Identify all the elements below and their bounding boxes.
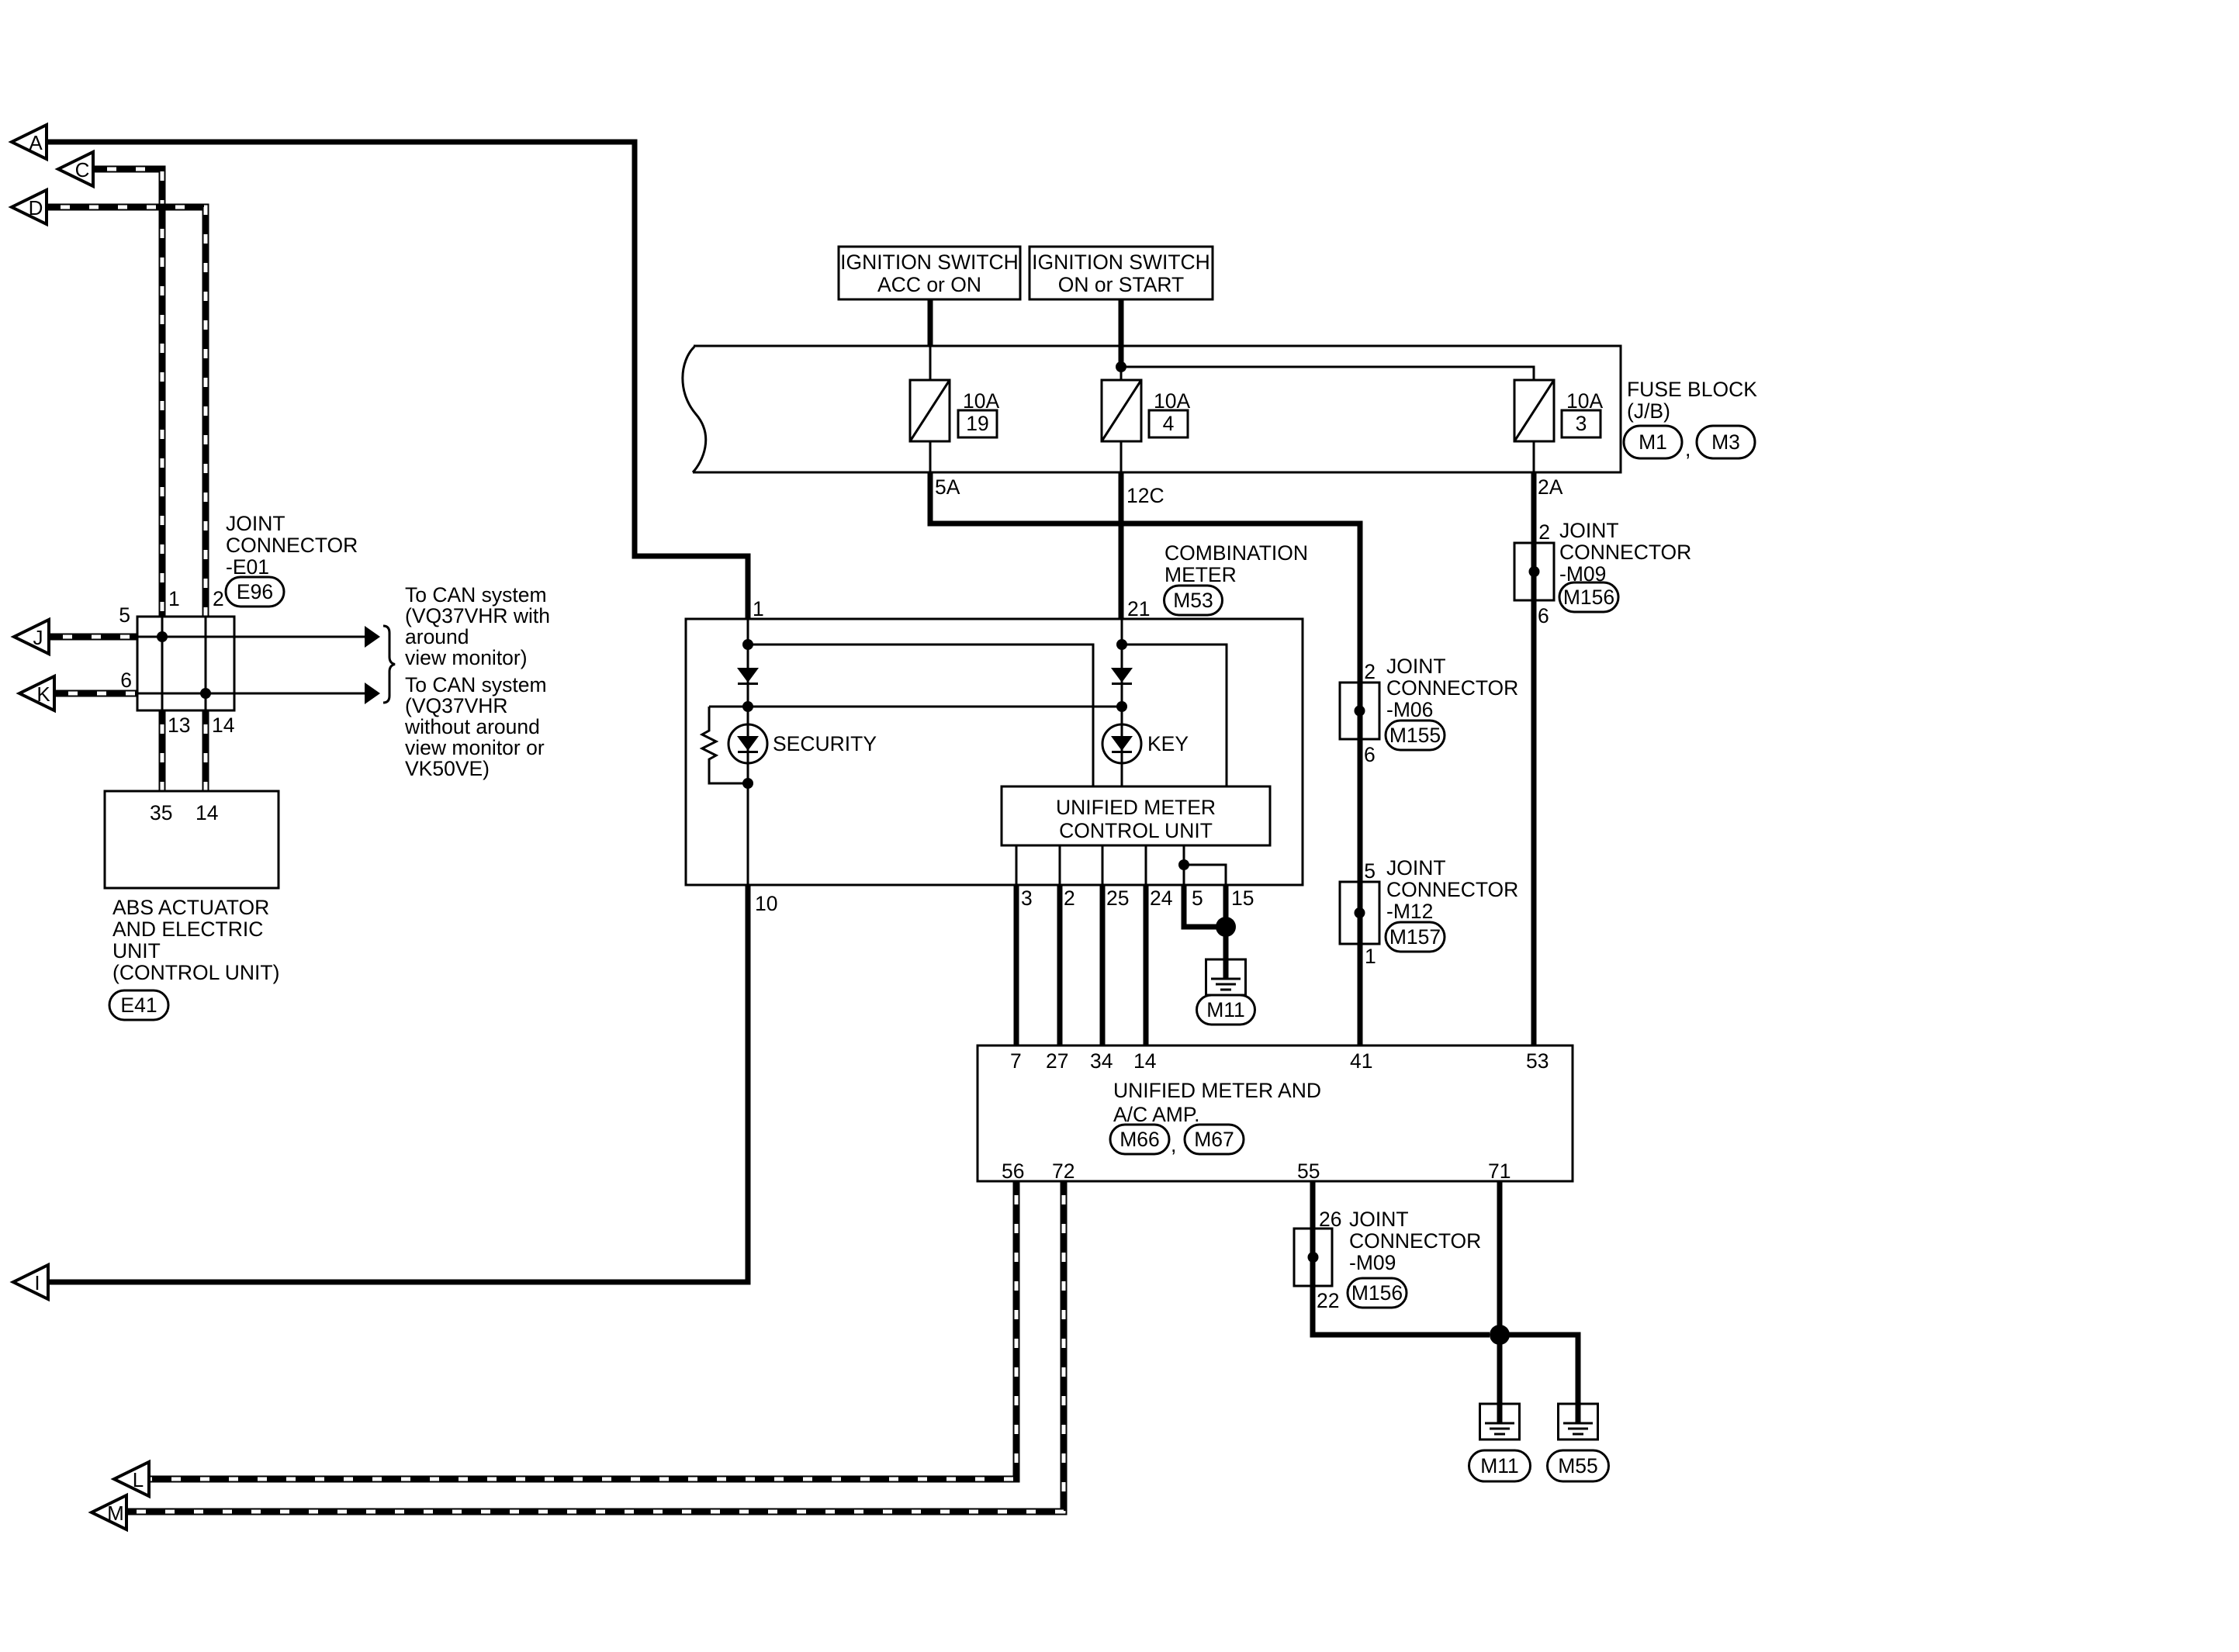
- wire: CAN line E96 pin13 to ABS pin 35: [159, 710, 166, 791]
- svg-text:4: 4: [1163, 412, 1175, 435]
- joint connector E96 box: [137, 617, 234, 710]
- svg-text:AND ELECTRIC: AND ELECTRIC: [112, 918, 263, 941]
- svg-text:53: 53: [1526, 1049, 1549, 1073]
- svg-text:14: 14: [196, 801, 218, 824]
- svg-text:To CAN system: To CAN system: [405, 583, 547, 607]
- svg-text:12C: 12C: [1126, 484, 1164, 507]
- svg-text:CONNECTOR: CONNECTOR: [1386, 878, 1518, 901]
- resistor parallel to security lamp: [702, 707, 748, 783]
- fuse 10A #4: [1102, 380, 1141, 441]
- svg-text:ABS ACTUATOR: ABS ACTUATOR: [112, 896, 269, 919]
- svg-text:(J/B): (J/B): [1627, 399, 1670, 423]
- node: ground junction below meter: [1216, 917, 1236, 937]
- svg-text:,: ,: [1171, 1133, 1176, 1156]
- svg-text:5: 5: [1192, 886, 1203, 910]
- connector oval M11 (meter ground): [1197, 995, 1255, 1025]
- unified meter and A/C amp box: [978, 1045, 1573, 1181]
- svg-text:UNIFIED METER: UNIFIED METER: [1056, 796, 1216, 819]
- svg-text:24: 24: [1150, 886, 1172, 910]
- connector arrow J: [14, 620, 49, 654]
- connector arrow A: [12, 125, 47, 159]
- ground symbol M11 (lower): [1480, 1404, 1520, 1439]
- svg-text:J: J: [33, 626, 43, 649]
- connector oval M156: [1559, 582, 1618, 612]
- wire: internal link to key lamp line: [709, 706, 1122, 708]
- svg-text:10: 10: [755, 892, 777, 915]
- svg-text:6: 6: [1364, 743, 1376, 766]
- svg-text:view monitor): view monitor): [405, 646, 528, 669]
- svg-text:D: D: [29, 196, 43, 219]
- wire: fuse 4 to fuse block bottom: [1120, 441, 1123, 472]
- fuse block (J/B) outline with torn left edge: [693, 346, 1621, 472]
- diode on security branch: [737, 668, 759, 683]
- connector oval E41: [109, 990, 168, 1020]
- svg-text:UNIT: UNIT: [112, 939, 161, 963]
- svg-text:KEY: KEY: [1147, 732, 1189, 755]
- svg-text:IGNITION SWITCH: IGNITION SWITCH: [840, 251, 1019, 274]
- svg-text:19: 19: [966, 412, 988, 435]
- fuse 10A #19: [910, 380, 950, 441]
- wire: meter internal pin1 branch vertical: [747, 619, 749, 885]
- ignition switch ON or START box: [1030, 247, 1213, 299]
- svg-text:SECURITY: SECURITY: [773, 732, 877, 755]
- wire: branch from pin5 junction to pin 15 lead: [1184, 865, 1226, 885]
- node: E96 junction pin1/pin5: [157, 631, 168, 642]
- svg-text:56: 56: [1002, 1160, 1024, 1183]
- wire: CAN line arrow J to E96 pin 5: [49, 634, 137, 641]
- connector oval E96: [226, 577, 284, 607]
- svg-text:M67: M67: [1194, 1128, 1234, 1151]
- wire: meter internal pin21 branch vertical: [1121, 619, 1123, 786]
- connector oval M156 (lower): [1348, 1278, 1407, 1308]
- svg-text:M11: M11: [1480, 1454, 1519, 1477]
- wire: E96 internal pin2-pin14 vertical: [205, 617, 207, 710]
- svg-text:JOINT: JOINT: [226, 512, 285, 535]
- arrowhead to CAN system upper: [365, 626, 380, 648]
- ground symbol M11 (meter): [1206, 959, 1246, 995]
- wire: control unit pin 24 lead: [1145, 845, 1147, 885]
- svg-text:M156: M156: [1351, 1281, 1403, 1305]
- joint connector -M09 (M156) box on 2A wire: [1514, 543, 1554, 600]
- ABS actuator and electric unit box: [105, 791, 279, 888]
- unified meter control unit box: [1002, 786, 1270, 845]
- svg-text:JOINT: JOINT: [1349, 1208, 1409, 1231]
- svg-text:27: 27: [1046, 1049, 1068, 1073]
- connector oval M66: [1110, 1125, 1169, 1154]
- node: key branch top junction: [1116, 639, 1127, 650]
- svg-text:A: A: [29, 131, 43, 154]
- wire: internal link key junction to control unit: [1122, 645, 1227, 786]
- label: fuse number 19 box: [958, 410, 997, 437]
- svg-text:UNIFIED METER AND: UNIFIED METER AND: [1113, 1079, 1321, 1102]
- svg-text:without around: without around: [404, 715, 540, 738]
- connector arrow K: [19, 676, 54, 710]
- svg-text:-M09: -M09: [1349, 1251, 1396, 1274]
- svg-text:M66: M66: [1119, 1128, 1160, 1151]
- svg-text:CONNECTOR: CONNECTOR: [1559, 541, 1691, 564]
- svg-text:-M06: -M06: [1386, 698, 1433, 721]
- joint connector -M12 (M157) box on 41 wire: [1340, 882, 1379, 944]
- wire: meter pin 3 to amp pin 7: [1014, 885, 1019, 1045]
- node: key branch mid junction: [1116, 701, 1127, 712]
- svg-text:JOINT: JOINT: [1386, 856, 1446, 880]
- wire: harness A horizontal/vertical feed to combination meter pin 1: [47, 142, 748, 619]
- connector oval M53: [1164, 586, 1223, 615]
- connector arrow D: [12, 190, 47, 224]
- svg-text:ON or START: ON or START: [1058, 273, 1184, 296]
- svg-text:3: 3: [1576, 412, 1587, 435]
- wire: meter pin 24 to amp pin 14: [1144, 885, 1149, 1045]
- svg-text:2: 2: [213, 587, 224, 610]
- svg-text:5: 5: [119, 603, 130, 627]
- svg-text:2A: 2A: [1538, 475, 1563, 499]
- svg-text:(VQ37VHR with: (VQ37VHR with: [405, 604, 550, 627]
- wire: thin line through E96 to CAN system (upper): [137, 636, 365, 638]
- connector oval M3: [1697, 426, 1755, 458]
- diode on key branch: [1111, 668, 1133, 683]
- svg-text:,: ,: [1685, 437, 1690, 461]
- svg-text:7: 7: [1010, 1049, 1022, 1073]
- svg-text:To CAN system: To CAN system: [405, 673, 547, 696]
- wire: thin feed to fuse 19: [929, 346, 932, 380]
- wire: 12C output down to combination meter pin 21: [1119, 472, 1124, 619]
- svg-text:ACC or ON: ACC or ON: [877, 273, 981, 296]
- svg-text:I: I: [34, 1271, 40, 1294]
- svg-text:26: 26: [1319, 1208, 1341, 1231]
- svg-text:CONNECTOR: CONNECTOR: [1349, 1229, 1481, 1253]
- svg-text:around: around: [405, 625, 469, 648]
- wire: 5A output down, across and down to unified meter A/C amp pin 41: [930, 472, 1360, 1045]
- svg-text:13: 13: [168, 714, 190, 737]
- svg-text:M55: M55: [1558, 1454, 1598, 1477]
- wire: branch from ON feed junction to fuse 3: [1121, 367, 1534, 380]
- svg-text:M3: M3: [1711, 430, 1740, 454]
- svg-text:METER: METER: [1164, 563, 1237, 586]
- svg-text:M1: M1: [1639, 430, 1667, 454]
- wire: thin feed to fuse 4: [1120, 367, 1123, 380]
- svg-text:6: 6: [120, 669, 132, 692]
- svg-text:22: 22: [1317, 1289, 1339, 1312]
- svg-text:34: 34: [1090, 1049, 1113, 1073]
- wire: E96 internal pin1-pin13 vertical: [161, 617, 164, 710]
- svg-text:71: 71: [1488, 1160, 1511, 1183]
- svg-text:55: 55: [1297, 1160, 1320, 1183]
- svg-text:-M12: -M12: [1386, 900, 1433, 923]
- wire: 2A output down through joint connectors to amp pin 53: [1531, 472, 1537, 1045]
- joint connector -M06 (M155) box on 41 wire: [1340, 683, 1379, 739]
- wire: CAN line from arrow C down to joint connector E96 pin 1: [93, 169, 162, 617]
- svg-text:CONNECTOR: CONNECTOR: [1386, 676, 1518, 700]
- wire: CAN line from arrow D down to joint connector E96 pin 2: [47, 207, 206, 617]
- svg-text:2: 2: [1064, 886, 1075, 910]
- wire: amp pin 55 down through joint connector M09 to ground junction: [1313, 1181, 1490, 1335]
- wire: meter pin 15 to ground junction: [1223, 885, 1229, 927]
- wire: meter pin 25 to amp pin 34: [1100, 885, 1106, 1045]
- connector arrow C: [58, 152, 93, 186]
- svg-text:C: C: [75, 158, 90, 181]
- svg-text:L: L: [133, 1468, 144, 1491]
- svg-text:JOINT: JOINT: [1386, 655, 1446, 678]
- svg-text:2: 2: [1364, 660, 1376, 683]
- node: pin5 junction: [1178, 859, 1189, 870]
- wire: junction to ground M11 (lower): [1497, 1335, 1503, 1424]
- svg-text:1: 1: [168, 587, 180, 610]
- svg-text:CONNECTOR: CONNECTOR: [226, 534, 358, 557]
- wire: CAN line E96 pin14 to ABS pin 14: [202, 710, 209, 791]
- svg-text:15: 15: [1231, 886, 1254, 910]
- svg-text:14: 14: [212, 714, 234, 737]
- wire: ground junction to ground M11: [1223, 927, 1229, 980]
- svg-text:(CONTROL UNIT): (CONTROL UNIT): [112, 961, 279, 984]
- svg-text:41: 41: [1350, 1049, 1372, 1073]
- svg-text:72: 72: [1052, 1160, 1075, 1183]
- svg-text:A/C AMP.: A/C AMP.: [1113, 1103, 1199, 1126]
- svg-text:VK50VE): VK50VE): [405, 757, 490, 780]
- LED: SECURITY indicator: [728, 724, 767, 763]
- label: fuse number 3 box: [1562, 410, 1601, 437]
- wire: CAN line amp pin 56 down and left to arrow L: [149, 1181, 1016, 1479]
- connector oval M11 (lower ground): [1469, 1450, 1531, 1481]
- svg-text:M11: M11: [1206, 998, 1245, 1021]
- node: E96 junction pin2/pin6: [200, 688, 211, 699]
- node: security branch mid junction: [742, 701, 753, 712]
- combination meter box: [686, 619, 1303, 885]
- connector arrow I: [13, 1265, 48, 1299]
- wire: CAN line amp pin 72 down and left to arrow M: [126, 1181, 1064, 1512]
- svg-text:M157: M157: [1389, 925, 1441, 949]
- svg-text:5: 5: [1364, 859, 1376, 883]
- connector oval M157: [1386, 922, 1445, 952]
- connector oval M155: [1386, 721, 1445, 750]
- svg-text:25: 25: [1106, 886, 1129, 910]
- ground symbol M55: [1559, 1404, 1598, 1439]
- svg-text:35: 35: [150, 801, 172, 824]
- svg-text:JOINT: JOINT: [1559, 519, 1619, 542]
- node: ground junction below amp: [1490, 1325, 1510, 1345]
- connector arrow L: [114, 1462, 149, 1496]
- svg-text:COMBINATION: COMBINATION: [1164, 541, 1308, 565]
- svg-text:E41: E41: [120, 994, 157, 1017]
- wire: meter pin 5 to ground junction: [1184, 885, 1226, 927]
- connector arrow M: [92, 1495, 126, 1529]
- node: ON feed junction in fuse block: [1116, 361, 1126, 372]
- brace for CAN system notes: [383, 626, 395, 703]
- connector oval M67: [1185, 1125, 1244, 1154]
- LED: KEY indicator: [1102, 724, 1141, 763]
- svg-text:1: 1: [753, 597, 764, 620]
- wire: ignition ON feed into fuse block: [1119, 299, 1124, 367]
- svg-text:6: 6: [1538, 604, 1549, 627]
- wire: thin line through E96 to CAN system (lower): [137, 693, 365, 695]
- wire: meter pin 10 down and left to arrow I: [48, 885, 748, 1282]
- svg-text:K: K: [36, 683, 50, 706]
- svg-text:E96: E96: [237, 580, 273, 603]
- wire: control unit pin 3 lead: [1016, 845, 1018, 885]
- svg-text:view monitor or: view monitor or: [405, 736, 545, 759]
- wire: junction right and down to ground M55: [1500, 1335, 1578, 1424]
- svg-text:M156: M156: [1563, 586, 1614, 609]
- svg-text:5A: 5A: [935, 475, 960, 499]
- svg-text:FUSE BLOCK: FUSE BLOCK: [1627, 378, 1757, 401]
- node: security branch bottom junction: [742, 778, 753, 789]
- ignition switch ACC or ON box: [839, 247, 1020, 299]
- svg-text:M: M: [107, 1502, 124, 1525]
- wire: control unit pin 2 lead: [1059, 845, 1061, 885]
- wire: meter pin 2 to amp pin 27: [1057, 885, 1063, 1045]
- svg-text:(VQ37VHR: (VQ37VHR: [405, 694, 508, 717]
- node: security branch top junction: [742, 639, 753, 650]
- wire: CAN line arrow K to E96 pin 6: [54, 690, 137, 697]
- wire: ignition ACC feed into fuse block: [928, 299, 933, 346]
- connector oval M55: [1548, 1450, 1609, 1481]
- svg-text:-E01: -E01: [226, 555, 269, 579]
- svg-text:CONTROL UNIT: CONTROL UNIT: [1059, 819, 1213, 842]
- joint connector -M09 (M156) box on 55 wire: [1294, 1229, 1332, 1286]
- wire: fuse 19 to fuse block bottom: [929, 441, 932, 472]
- fuse 10A #3: [1514, 380, 1554, 441]
- svg-text:14: 14: [1133, 1049, 1156, 1073]
- svg-text:1: 1: [1365, 945, 1376, 968]
- wire: internal link pin1 junction to security drive line: [748, 645, 1093, 786]
- wire: amp pin 71 down to ground junction: [1497, 1181, 1503, 1335]
- wire: control unit pin 5 lead: [1183, 845, 1185, 885]
- svg-text:IGNITION SWITCH: IGNITION SWITCH: [1032, 251, 1210, 274]
- svg-text:2: 2: [1538, 520, 1550, 544]
- wire: control unit pin 25 lead: [1102, 845, 1104, 885]
- svg-text:21: 21: [1127, 597, 1150, 620]
- arrowhead to CAN system lower: [365, 683, 380, 704]
- svg-text:M53: M53: [1173, 589, 1213, 612]
- connector oval M1: [1624, 426, 1682, 458]
- svg-text:M155: M155: [1389, 724, 1441, 747]
- wire: fuse 3 to fuse block bottom: [1533, 441, 1535, 472]
- label: fuse number 4 box: [1149, 410, 1188, 437]
- svg-text:3: 3: [1021, 886, 1033, 910]
